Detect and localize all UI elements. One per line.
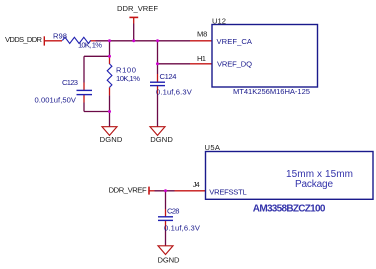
- svg-text:C123: C123: [62, 78, 78, 87]
- svg-text:C124: C124: [160, 72, 177, 81]
- svg-text:DGND: DGND: [158, 255, 181, 264]
- svg-text:0.1uf,6.3V: 0.1uf,6.3V: [164, 224, 201, 233]
- svg-text:C28: C28: [167, 207, 180, 216]
- svg-text:MT41K256M16HA-125: MT41K256M16HA-125: [233, 87, 310, 96]
- svg-text:VREF_CA: VREF_CA: [217, 37, 253, 46]
- svg-text:U5A: U5A: [205, 143, 221, 152]
- svg-text:VREF_DQ: VREF_DQ: [217, 60, 252, 69]
- svg-text:0.1uf,6.3V: 0.1uf,6.3V: [156, 87, 193, 96]
- svg-text:M8: M8: [197, 30, 207, 39]
- svg-text:R98: R98: [53, 31, 67, 40]
- svg-text:0.001uf,50V: 0.001uf,50V: [35, 95, 77, 104]
- svg-text:VDDS_DDR: VDDS_DDR: [5, 35, 43, 44]
- svg-text:DDR_VREF: DDR_VREF: [117, 4, 158, 13]
- svg-text:AM3358BZCZ100: AM3358BZCZ100: [253, 203, 326, 214]
- svg-text:U12: U12: [212, 16, 226, 25]
- svg-text:DGND: DGND: [100, 135, 123, 144]
- svg-text:DDR_VREF: DDR_VREF: [109, 185, 147, 194]
- svg-text:Package: Package: [295, 179, 333, 190]
- svg-text:DGND: DGND: [150, 135, 173, 144]
- svg-text:VREFSSTL: VREFSSTL: [209, 187, 246, 196]
- svg-text:10K, 1%: 10K, 1%: [78, 41, 102, 50]
- svg-text:J4: J4: [193, 180, 200, 189]
- svg-text:10K,1%: 10K,1%: [116, 74, 140, 83]
- svg-text:H1: H1: [197, 54, 206, 63]
